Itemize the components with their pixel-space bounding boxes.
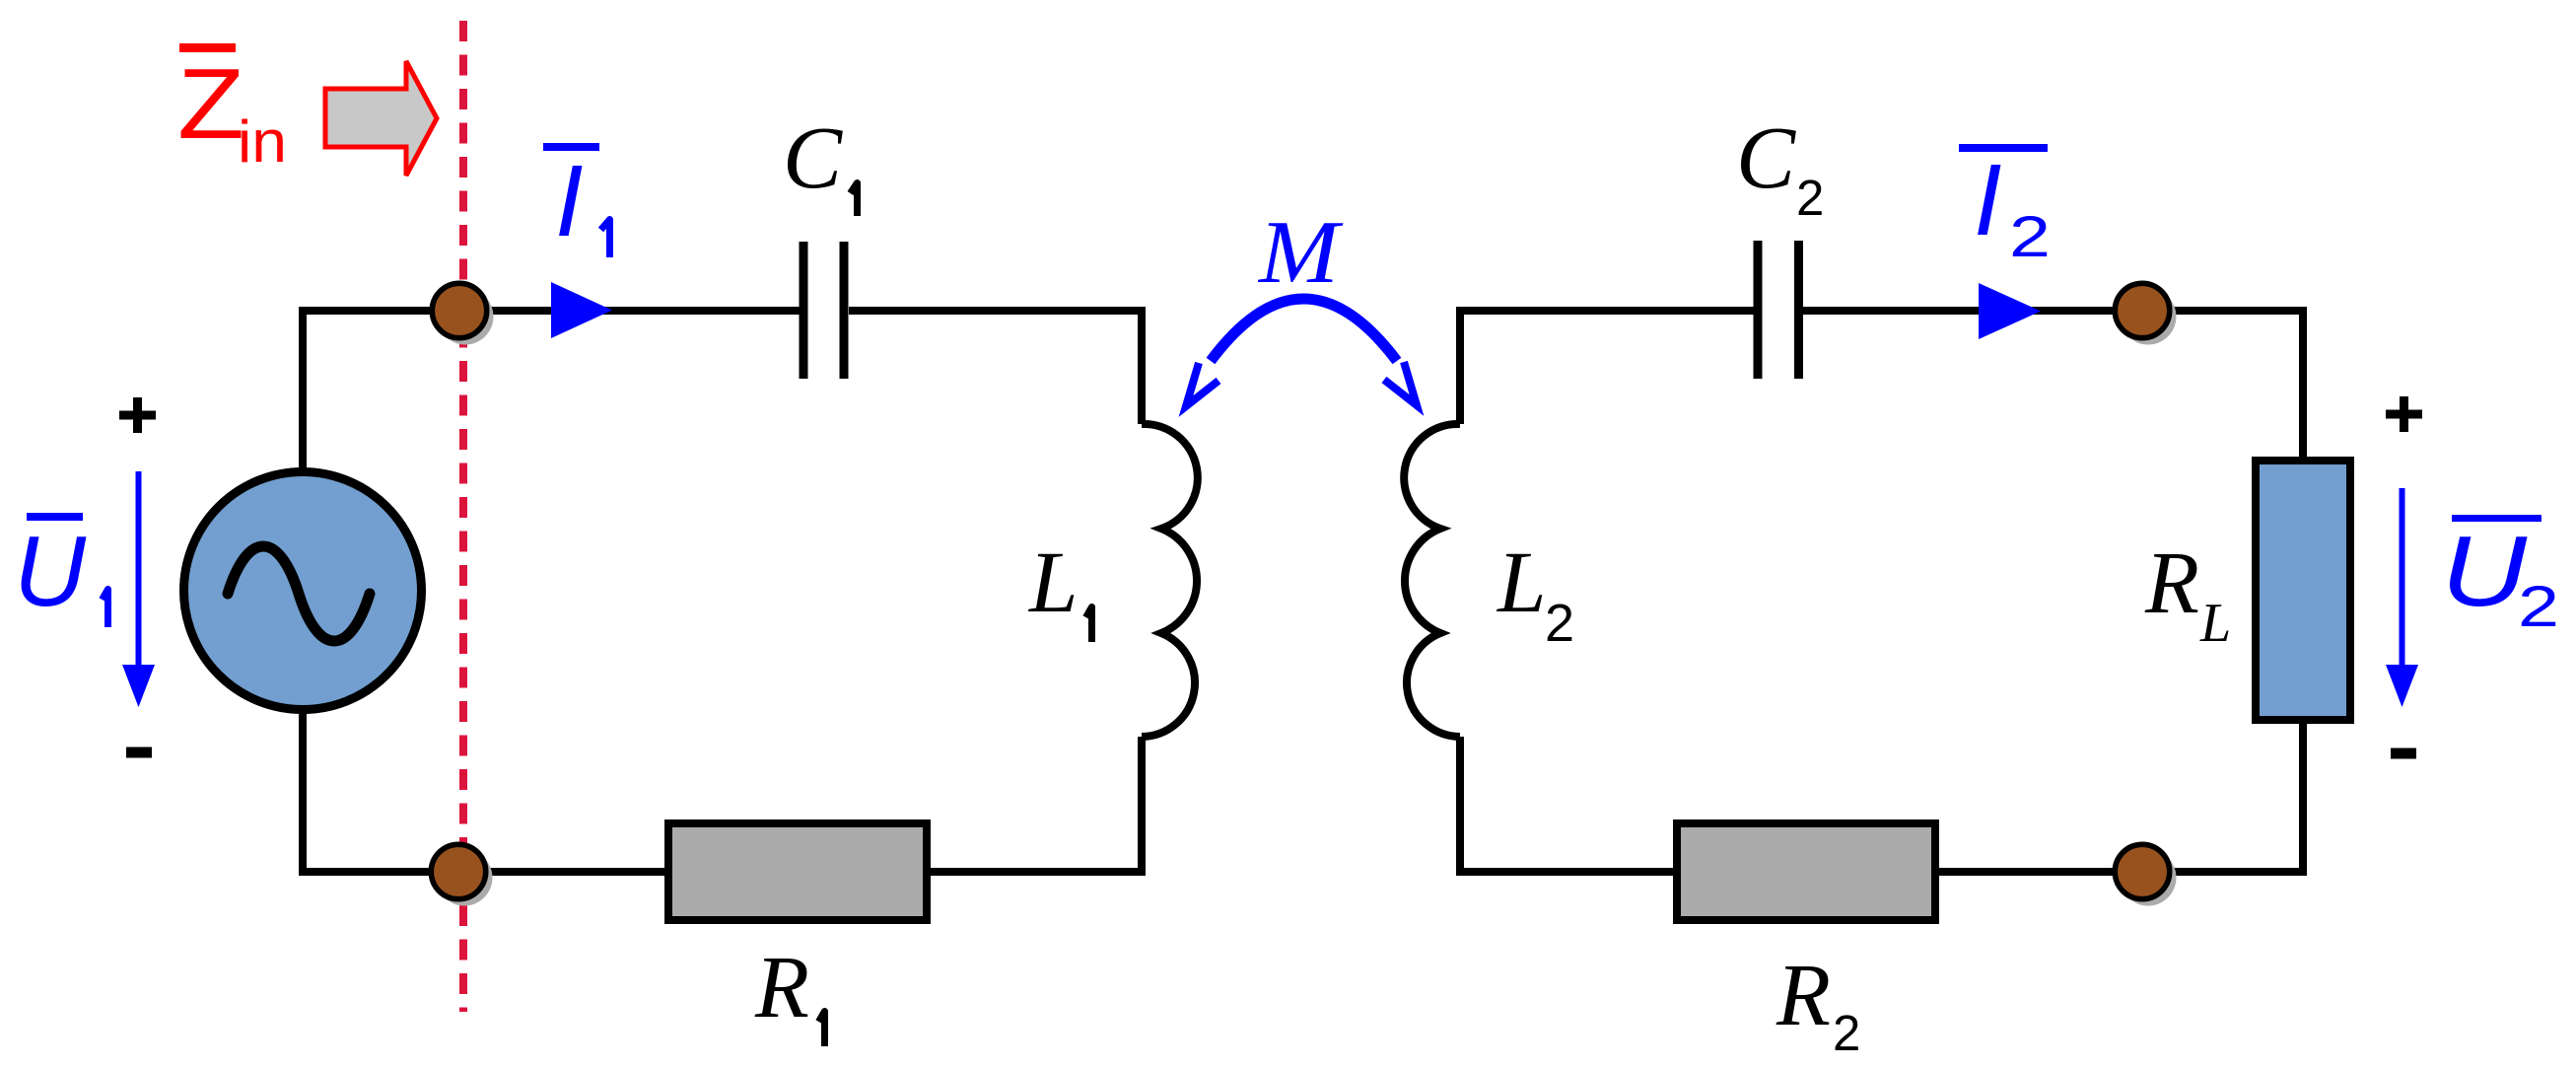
svg-text:I: I: [1974, 143, 2002, 256]
node: output terminal bottom: [2115, 844, 2169, 898]
svg-text:C: C: [1736, 109, 1796, 207]
impedance arrow Zin: [325, 61, 437, 176]
svg-text:2: 2: [1833, 1005, 1860, 1061]
inductor L1: [1142, 424, 1198, 737]
svg-text:L: L: [1496, 534, 1547, 631]
label I1: [543, 143, 599, 257]
svg-text:U: U: [2441, 517, 2528, 627]
svg-text:M: M: [1257, 202, 1344, 302]
resistor R1: [668, 823, 927, 920]
current arrow I2: [1979, 283, 2041, 339]
wire: bottom right loop: [1460, 868, 2303, 876]
node: output terminal top: [2115, 283, 2169, 337]
svg-text:C: C: [783, 109, 843, 207]
wire: source top to C1: [303, 311, 800, 472]
label I2: [1959, 143, 2051, 269]
wire: C1 to L1 top: [849, 311, 1142, 424]
AC source U1: [184, 472, 422, 710]
subscript 1 of I1: [601, 220, 610, 258]
svg-text:2: 2: [1545, 594, 1574, 653]
plus sign right: [2386, 396, 2422, 432]
svg-text:2: 2: [2009, 205, 2051, 269]
sine wave: [228, 546, 370, 641]
svg-text:R: R: [754, 939, 809, 1036]
mutual inductance arc M: [1211, 299, 1397, 361]
wire: L1 bottom: [1138, 737, 1146, 876]
capacitor C2: [1758, 241, 1799, 379]
voltage arrow U1: [136, 471, 142, 676]
svg-text:2: 2: [2518, 575, 2559, 639]
node: input terminal bottom: [431, 844, 485, 898]
subscript 1 of R1: [819, 1012, 825, 1047]
wire: RL bottom: [2299, 720, 2307, 876]
label Zin: [177, 43, 287, 175]
subscript 1 of U1: [103, 590, 108, 628]
wire: C2 to RL top: [1803, 311, 2303, 461]
svg-text:L: L: [2199, 593, 2231, 654]
load resistor RL: [2256, 461, 2350, 720]
voltage arrow U2: [2400, 488, 2405, 676]
svg-text:2: 2: [1796, 170, 1824, 226]
current arrow I1: [551, 282, 612, 338]
M arrowhead right: [1384, 362, 1417, 405]
input impedance reference plane (dashed line): [459, 21, 467, 1012]
wire: L2 top to C2: [1460, 311, 1754, 424]
node: input terminal top: [432, 283, 486, 337]
wire: L2 bottom: [1456, 737, 1464, 876]
label U1: [14, 513, 87, 627]
minus sign right: [2391, 748, 2416, 759]
subscript 1 of C1: [851, 183, 858, 217]
plus sign left: [119, 397, 156, 433]
svg-text:L: L: [1027, 534, 1079, 631]
svg-text:U: U: [14, 517, 87, 627]
resistor R2: [1677, 823, 1935, 920]
M arrowhead left: [1186, 363, 1218, 406]
inductor L2: [1404, 424, 1460, 737]
capacitor C1: [803, 242, 844, 379]
svg-text:R: R: [1775, 947, 1831, 1044]
node shadows: [438, 289, 494, 345]
label U2: [2441, 515, 2559, 639]
svg-text:Z: Z: [177, 49, 244, 160]
svg-text:R: R: [2144, 534, 2199, 632]
svg-text:I: I: [555, 144, 584, 257]
svg-text:in: in: [238, 108, 287, 175]
wire: bottom left loop: [303, 706, 1142, 872]
minus sign left: [126, 748, 152, 758]
subscript 1 of L1: [1086, 607, 1092, 643]
